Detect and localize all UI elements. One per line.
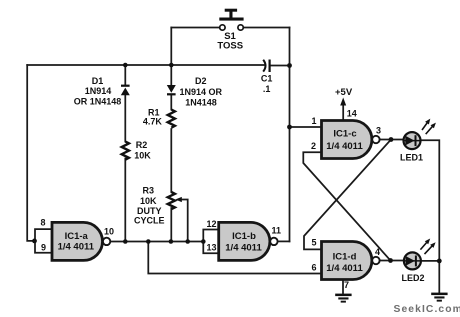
svg-text:LED2: LED2 — [401, 273, 424, 283]
svg-text:IC1-c: IC1-c — [333, 129, 356, 140]
svg-text:4.7K: 4.7K — [143, 117, 163, 127]
svg-text:7: 7 — [344, 280, 349, 290]
svg-text:14: 14 — [347, 108, 357, 118]
svg-text:SeekIC.com: SeekIC.com — [394, 304, 460, 315]
svg-text:1: 1 — [312, 116, 317, 126]
svg-text:10K: 10K — [134, 150, 151, 160]
svg-text:1/4 4011: 1/4 4011 — [326, 141, 363, 152]
svg-text:1N914: 1N914 — [85, 86, 112, 96]
svg-text:10: 10 — [104, 227, 114, 237]
svg-text:LED1: LED1 — [400, 153, 423, 163]
svg-text:R2: R2 — [136, 140, 148, 150]
svg-text:D2: D2 — [195, 76, 207, 86]
svg-text:1/4 4011: 1/4 4011 — [326, 263, 363, 274]
svg-text:CYCLE: CYCLE — [134, 215, 165, 225]
svg-text:R3: R3 — [143, 185, 155, 195]
svg-text:.1: .1 — [263, 84, 271, 94]
svg-text:1/4 4011: 1/4 4011 — [225, 243, 262, 254]
svg-text:DUTY: DUTY — [137, 206, 162, 216]
svg-text:3: 3 — [376, 126, 381, 136]
svg-text:TOSS: TOSS — [217, 40, 243, 51]
svg-text:IC1-b: IC1-b — [232, 231, 256, 242]
svg-text:+5V: +5V — [335, 87, 353, 98]
svg-text:12: 12 — [207, 219, 217, 229]
svg-text:10K: 10K — [140, 196, 157, 206]
svg-text:1/4 4011: 1/4 4011 — [58, 242, 95, 253]
svg-text:5: 5 — [312, 238, 317, 248]
svg-text:OR 1N4148: OR 1N4148 — [74, 97, 122, 107]
svg-text:4: 4 — [375, 247, 380, 257]
svg-text:2: 2 — [311, 141, 316, 151]
svg-text:13: 13 — [207, 243, 217, 253]
svg-text:9: 9 — [41, 243, 46, 253]
svg-text:C1: C1 — [261, 73, 273, 83]
svg-text:6: 6 — [312, 263, 317, 273]
svg-text:1N4148: 1N4148 — [185, 98, 217, 108]
svg-text:IC1-d: IC1-d — [333, 251, 357, 262]
svg-text:1N914 OR: 1N914 OR — [180, 87, 223, 97]
svg-text:11: 11 — [272, 226, 282, 236]
svg-text:D1: D1 — [92, 76, 104, 86]
svg-text:8: 8 — [41, 218, 46, 228]
